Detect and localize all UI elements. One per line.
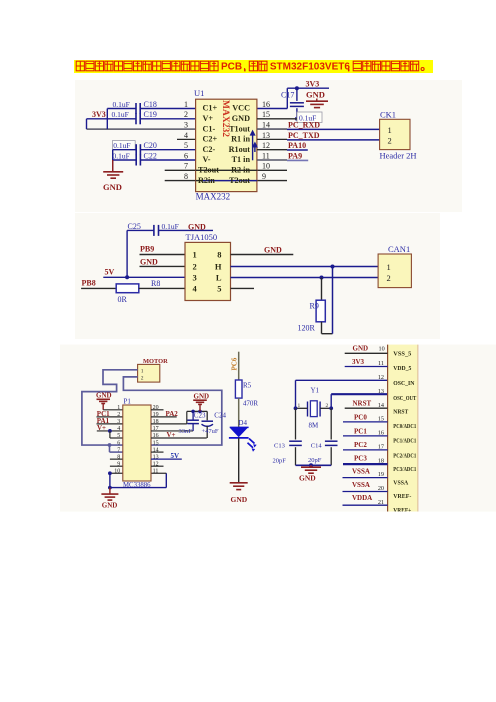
value label 0.1uF boxed (297, 112, 322, 123)
svg-text:Y1: Y1 (311, 387, 320, 395)
connector CK1 (380, 119, 410, 149)
schematic image background block 1 (75, 80, 462, 212)
net PC6 vertical wire (238, 352, 240, 380)
bottom rail of crystal caps (296, 464, 332, 466)
capacitor C19 (87, 118, 136, 120)
wire pin4 stub (177, 138, 196, 140)
svg-text:OSC_IN: OSC_IN (393, 380, 414, 387)
capacitor C20 boxed value (112, 141, 135, 150)
svg-text:470R: 470R (243, 400, 259, 408)
net label PC0 / pin15 (343, 421, 388, 423)
U1 left pin names (203, 104, 218, 165)
svg-text:PA2: PA2 (166, 410, 179, 418)
MCU pin numbers (378, 360, 384, 506)
ground symbol below crystal (310, 465, 312, 467)
wire OSC_OUT thick (330, 394, 332, 408)
svg-text:PC2: PC2 (354, 441, 367, 449)
svg-text:R5: R5 (243, 382, 252, 390)
svg-text:VREF-: VREF- (393, 493, 411, 500)
capacitor C22 (113, 159, 136, 161)
wire pin12 stub (151, 465, 164, 467)
wire C1- row (87, 128, 196, 130)
svg-text:C13: C13 (274, 443, 285, 450)
wire PC_TXD (257, 138, 287, 140)
svg-text:GND: GND (231, 495, 248, 504)
wire MOTOR pin2 to P1 pin 15 (123, 377, 221, 445)
svg-text:VSSA: VSSA (393, 479, 408, 486)
svg-text:PC0/ADC1: PC0/ADC1 (393, 423, 416, 430)
svg-text:NRST: NRST (393, 409, 408, 416)
capacitor C14 20pF (330, 408, 332, 439)
svg-text:20pF: 20pF (273, 457, 287, 464)
wire CANL (231, 277, 379, 279)
svg-text:12: 12 (378, 374, 384, 381)
svg-text:7: 7 (117, 447, 120, 453)
svg-text:P1: P1 (124, 397, 132, 405)
svg-text:13: 13 (378, 388, 384, 395)
resistor R9 120R (321, 278, 323, 301)
svg-text:GND: GND (194, 392, 210, 400)
net label VDDA / pin21 (343, 504, 388, 506)
svg-text:PC0: PC0 (354, 414, 367, 422)
wire CANH (231, 266, 379, 268)
svg-text:C23: C23 (194, 411, 206, 419)
net label 5V / wire pin13 (151, 458, 182, 460)
net label PC1 / pin16 (343, 435, 388, 437)
ground symbol below P1 (109, 488, 111, 494)
wire R2in crossing chip (196, 180, 205, 182)
capacitor C23 33nF (192, 411, 194, 420)
wire arrow on R2in (219, 177, 226, 184)
svg-text:8M: 8M (309, 422, 320, 430)
svg-text:VSSA: VSSA (352, 468, 370, 476)
svg-text:+47uF: +47uF (202, 428, 219, 435)
wire D4 to ground (238, 438, 240, 483)
svg-text:3: 3 (117, 419, 120, 425)
capacitor C17 (296, 88, 298, 101)
net label PC2 / pin17 (343, 449, 388, 451)
capacitor C13 20pF (295, 408, 297, 439)
svg-text:6: 6 (117, 440, 120, 446)
IC U1 MAX232 chip body (196, 99, 257, 191)
svg-text:PC2/ADC1: PC2/ADC1 (393, 452, 416, 459)
wire GND row (140, 265, 186, 267)
wire pin8 stub (110, 458, 123, 460)
svg-text:2: 2 (326, 403, 329, 409)
wire 5V (103, 276, 185, 278)
U1 right pin names (229, 104, 251, 165)
svg-text:MC33886: MC33886 (123, 482, 151, 489)
svg-text:20pF: 20pF (308, 457, 322, 464)
svg-text:V+: V+ (167, 431, 176, 439)
wire 3V3 rail (287, 87, 329, 89)
svg-text:PC1/ADC1: PC1/ADC1 (393, 438, 416, 445)
wire PA9 (257, 159, 287, 161)
wire pin5 stub (231, 287, 255, 289)
wire pin17 row (151, 430, 193, 432)
svg-text:9: 9 (117, 461, 120, 467)
resistor R5 470R (235, 380, 242, 398)
wire R8 to chip (139, 287, 185, 289)
svg-text:5: 5 (117, 433, 120, 439)
svg-text:2: 2 (141, 376, 144, 382)
svg-text:10: 10 (379, 345, 385, 352)
svg-text:VREF+: VREF+ (393, 507, 411, 514)
MCU cropped top row wire (345, 352, 388, 354)
svg-text:8: 8 (117, 454, 120, 460)
ground rail under P1 (110, 487, 166, 489)
blue jumper with arrows right of U1 (252, 132, 254, 161)
svg-text:D4: D4 (238, 419, 247, 427)
connector MOTOR (138, 364, 160, 382)
svg-text:GND: GND (96, 392, 112, 400)
wire PC_RXD (257, 128, 287, 130)
IC TJA1050 CAN transceiver body (185, 242, 231, 300)
net label VSSA / pin20 (343, 491, 388, 493)
wire vertical joining row1-row3 (106, 109, 108, 130)
net label PC3 / pin18 thick (343, 463, 388, 465)
svg-text:10: 10 (114, 468, 120, 474)
wire pin9 stub (110, 465, 123, 467)
svg-text:4: 4 (117, 426, 120, 432)
wire R2in row (165, 180, 205, 182)
wire V+ jog to pin5 (109, 431, 111, 438)
wire pin10 to ground rail (110, 472, 123, 474)
svg-text:C14: C14 (311, 443, 323, 450)
svg-text:PC3/ADC1: PC3/ADC1 (393, 466, 416, 473)
wire P1 pin1 (103, 409, 123, 411)
svg-text:3V3: 3V3 (352, 358, 365, 366)
MCU U3 STM32 symbol body (cropped) (388, 345, 418, 512)
svg-text:1: 1 (141, 368, 144, 374)
capacitor C18 (107, 108, 136, 110)
schematic image background block 3 (60, 345, 496, 512)
wire PB9 (140, 254, 186, 256)
ground symbol left of U1 (103, 171, 123, 173)
svg-text:11: 11 (153, 468, 159, 474)
svg-text:NRST: NRST (353, 399, 372, 407)
wire T2out row (165, 169, 287, 171)
svg-text:C24: C24 (214, 411, 226, 419)
svg-text:VDDA: VDDA (352, 494, 372, 502)
svg-text:PC1: PC1 (354, 427, 367, 435)
wire arrow on T2out (217, 167, 224, 174)
wire PB8 (81, 287, 116, 289)
P1 left pin numbers (114, 405, 120, 474)
MCU pin names (393, 351, 416, 514)
svg-text:VSSA: VSSA (352, 481, 370, 489)
svg-text:GND: GND (102, 502, 118, 510)
net label V+ / wire pin16 (151, 437, 207, 439)
svg-text:GND: GND (299, 473, 316, 482)
driver P1 MC33886 body (123, 405, 151, 481)
P1 right pin numbers (153, 405, 159, 474)
connector CAN1 (378, 254, 411, 288)
wire R5 to D4 (238, 398, 240, 428)
wire MOTOR pin1 to P1 pins 6,7 (82, 370, 138, 445)
wire cap ground rail (112, 150, 114, 172)
net label 3V3 / pin11 (345, 366, 388, 368)
svg-text:33nF: 33nF (179, 428, 193, 435)
net label VSSA / pin19 (343, 477, 388, 479)
wire PA10 (257, 149, 287, 151)
svg-text:OSC_OUT: OSC_OUT (393, 395, 416, 402)
svg-text:1: 1 (298, 403, 301, 409)
wire pin14 stub (151, 451, 164, 453)
svg-text:5V: 5V (171, 452, 180, 460)
wire pin18 to C23 rail (151, 423, 187, 425)
svg-text:PC6: PC6 (231, 357, 239, 370)
wire vertical joining 3V3 row to row3 (86, 119, 88, 129)
svg-text:PC3: PC3 (354, 454, 367, 462)
svg-text:15: 15 (153, 440, 159, 446)
wire C25 to 5V rail (126, 230, 128, 277)
U1 right pin numbers (262, 100, 270, 181)
svg-text:2: 2 (117, 412, 120, 418)
document title highlighted text: 与本程序代码相关部分的原理图及 PCB，基于 STM32F103VET6，已在项目中应用。 (74, 60, 433, 74)
wire T2out crossing chip (196, 169, 257, 171)
wire pin15 stub (257, 118, 297, 120)
TJA1050 pin labels (193, 250, 198, 294)
top rail of C23/C24 (187, 410, 207, 412)
wire pin20 stub (151, 409, 164, 411)
U1 left pin numbers (184, 100, 188, 181)
svg-text:MOTOR: MOTOR (143, 358, 168, 365)
ground symbol below D4 (230, 482, 248, 484)
svg-text:GND: GND (353, 344, 369, 352)
wire pin8 to GND label (231, 254, 294, 256)
net label NRST / pin14 (345, 407, 388, 409)
schematic image background block 2 (75, 213, 440, 339)
resistor R8 0R (116, 284, 139, 293)
wire OSC_IN (295, 380, 297, 408)
net label PA2 / wire pin19 (151, 416, 177, 418)
svg-text:1: 1 (117, 405, 120, 411)
svg-text:VDD_5: VDD_5 (393, 365, 412, 372)
capacitor C24 +47uF electrolytic (206, 411, 208, 420)
svg-text:VSS_5: VSS_5 (393, 351, 412, 358)
